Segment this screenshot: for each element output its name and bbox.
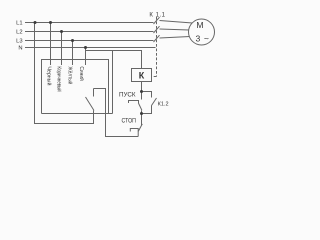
wire box bottom extension [109,113,113,115]
wire phase 2 to motor [160,29,190,30]
contactor K1.1 blade phase 1 [154,17,160,24]
svg-text:Синий: Синий [78,66,85,80]
svg-text:К: К [139,70,145,80]
wire brown drop into box [61,32,63,66]
svg-text:N: N [18,46,22,52]
wire feed drop right of box [112,51,114,114]
contact K1.2 branch bottom [142,106,152,114]
svg-text:ПУСК: ПУСК [119,92,136,98]
svg-text:Коричневый: Коричневый [55,66,62,91]
switch S1 blade in box [86,97,95,111]
pushbutton START bottom lead [141,111,143,114]
junction dot N blue [84,46,87,49]
wire phase 3 to motor [160,37,191,39]
svg-text:L2: L2 [16,30,22,36]
junction box [42,60,109,114]
pushbutton STOP cap [130,129,138,132]
svg-text:СТОП: СТОП [122,119,136,125]
wire yellow drop into box [72,41,74,66]
contact K1.2 blade [152,98,157,106]
wire L1 bus [25,22,154,24]
pushbutton STOP top lead [141,114,143,126]
wire switch to stop button bottom [94,89,139,137]
svg-text:L3: L3 [16,39,22,45]
wire L3 bus [25,40,154,42]
wire black drop into box [50,23,52,66]
wire N bus [25,47,156,49]
wire phase 1 to motor [160,21,193,24]
wire blue drop into box [85,48,87,66]
contactor coil K box [132,69,152,82]
junction dot L3 yellow [71,39,74,42]
svg-text:К 1.1: К 1.1 [149,12,165,18]
svg-text:3 ~: 3 ~ [196,34,209,44]
svg-text:Жёлтый: Жёлтый [66,66,73,84]
svg-text:К1.2: К1.2 [158,102,169,108]
svg-text:Черный: Черный [45,66,52,85]
contactor K1.1 blade phase 2 [154,26,160,33]
svg-text:М: М [196,20,203,30]
contact K1.2 branch top [142,92,152,98]
junction dot L1 black [49,21,52,24]
pushbutton START blade [138,103,142,110]
wire L1 drop to stop circuit and up to switch [35,23,94,124]
junction dot L2 brown [60,30,63,33]
motor M1 circle [189,19,215,45]
mechanical link dashed K1.1 to K [152,17,157,77]
svg-text:L1: L1 [16,21,22,27]
pushbutton START top lead [141,92,143,100]
junction dot start branch [140,90,143,93]
junction dot stop branch [140,112,143,115]
switch S1 top terminal [93,89,95,97]
wire K coil bottom to start node [141,82,143,92]
pushbutton START cap [129,101,139,104]
contactor K1.1 blade phase 3 [154,35,160,42]
wire N feed to coil K [86,48,142,69]
pushbutton STOP blade [138,124,142,137]
wire L2 bus [25,31,154,33]
junction dot L1 left drop [34,21,37,24]
